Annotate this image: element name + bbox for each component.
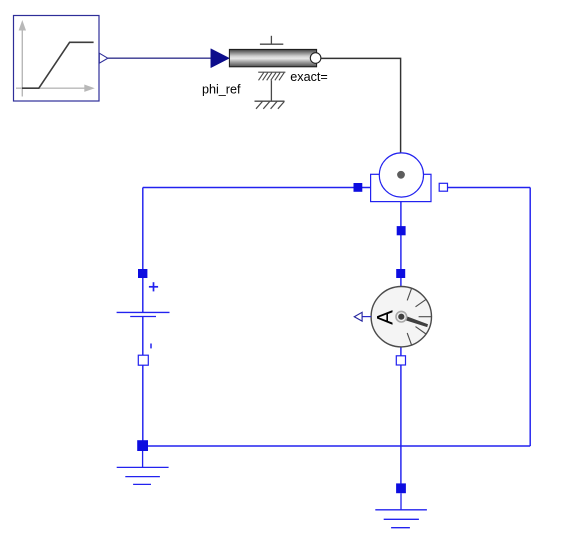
svg-text:phi_ref: phi_ref [202, 83, 241, 97]
svg-text:A: A [373, 310, 398, 325]
svg-text:exact=: exact= [290, 70, 327, 84]
